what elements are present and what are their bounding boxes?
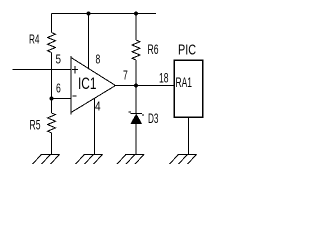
svg-text:RA1: RA1	[176, 75, 193, 90]
wire R6 top from rail	[135, 14, 137, 41]
svg-text:PIC: PIC	[178, 42, 196, 58]
svg-text:7: 7	[123, 68, 128, 83]
node output junction	[134, 84, 138, 88]
svg-text:R4: R4	[29, 32, 40, 47]
wire input to pin 5	[13, 69, 72, 71]
resistor R6	[132, 40, 140, 60]
wire R5 top	[51, 99, 53, 114]
diode D3 zener right tick	[142, 114, 144, 116]
wire output node down to D3	[135, 86, 137, 114]
svg-text:5: 5	[56, 51, 62, 66]
wire output pin 7 to PIC	[116, 85, 175, 87]
ground below D3	[117, 155, 144, 165]
resistor R4	[48, 33, 56, 53]
svg-text:8: 8	[96, 52, 101, 67]
wire R6 bottom to output node	[135, 60, 137, 86]
op-amp plus input mark	[72, 66, 78, 73]
svg-text:IC1: IC1	[78, 75, 97, 93]
wire pin 8 from rail to op-amp top	[88, 14, 90, 70]
op-amp minus input mark	[73, 95, 77, 97]
ground below R5	[33, 155, 60, 165]
node divider junction	[50, 97, 54, 101]
IC PIC block outline	[174, 60, 203, 117]
resistor R5	[48, 113, 56, 133]
wire R4 branch from rail	[51, 14, 53, 33]
ground below pin 4	[76, 155, 103, 165]
diode D3 zener cathode bar	[131, 113, 143, 115]
svg-text:4: 4	[95, 99, 101, 114]
svg-text:18: 18	[159, 70, 169, 86]
node rail junction pin8	[87, 12, 91, 16]
svg-text:R6: R6	[148, 41, 159, 57]
wire D3 anode to ground	[135, 124, 137, 155]
node rail junction R6	[134, 12, 138, 16]
svg-text:D3: D3	[148, 110, 159, 126]
ground below PIC	[170, 155, 197, 165]
wire top supply rail	[52, 13, 157, 15]
wire divider node to pin 6	[52, 98, 72, 100]
wire PIC to ground	[188, 117, 190, 155]
wire R5 bottom to ground	[51, 133, 53, 155]
op-amp IC1 triangle	[71, 58, 116, 113]
diode D3 body	[130, 114, 142, 124]
wire pin 4 from op-amp bottom to ground	[94, 98, 96, 155]
svg-text:6: 6	[56, 81, 61, 96]
diode D3 zener left tick	[129, 111, 131, 113]
svg-text:R5: R5	[30, 117, 41, 133]
wire R4 bottom to divider node	[51, 53, 53, 99]
